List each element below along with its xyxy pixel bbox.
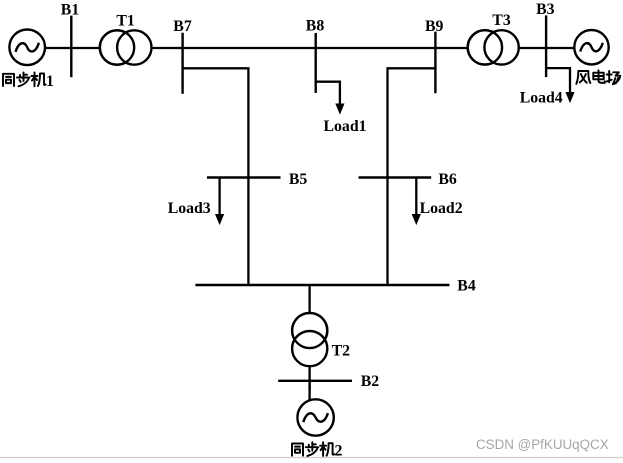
node B4 bus	[195, 284, 449, 286]
node B5 bus bar	[207, 176, 281, 178]
svg-text:B5: B5	[289, 171, 308, 188]
bottom divider line	[0, 457, 623, 459]
svg-text:1: 1	[46, 73, 54, 90]
wire Load3 drop	[218, 178, 220, 216]
svg-text:B7: B7	[173, 18, 192, 35]
transformer T3	[468, 30, 519, 64]
svg-text:T3: T3	[492, 12, 511, 29]
node B6 bus bar	[359, 176, 432, 178]
wire T2 to B2	[308, 365, 310, 390]
generator G1 (同步机1)	[9, 30, 45, 66]
transformer T1	[100, 30, 152, 64]
node B7 bus	[181, 33, 183, 94]
svg-text:Load1: Load1	[324, 118, 367, 135]
arrowhead Load2	[412, 214, 421, 225]
generator wind farm (风电场)	[574, 30, 608, 64]
svg-text:B2: B2	[361, 373, 380, 390]
svg-text:T2: T2	[332, 342, 351, 359]
svg-text:B1: B1	[61, 2, 80, 19]
svg-text:B9: B9	[425, 18, 444, 35]
node B2 bus bar	[278, 380, 352, 382]
wire main horizontal top	[27, 47, 591, 49]
svg-text:B3: B3	[536, 1, 555, 18]
wire B7 branch down to B4	[183, 68, 249, 285]
node B9 bus	[434, 32, 436, 94]
wire B3 load branch	[546, 68, 570, 93]
svg-text:Load2: Load2	[420, 200, 463, 217]
node B1 bus	[70, 16, 72, 78]
wire B2 to generator 2	[308, 381, 310, 401]
wire B8 load branch	[316, 82, 340, 105]
arrowhead Load4	[565, 92, 574, 103]
svg-text:T1: T1	[116, 12, 135, 29]
label 同步机1 (generator 1 name)	[3, 73, 46, 87]
arrowhead Load3	[215, 214, 224, 225]
transformer T2	[292, 313, 327, 366]
generator G2 (同步机2)	[297, 399, 333, 435]
label 同步机2 (generator 2 name)	[292, 442, 334, 456]
svg-text:2: 2	[335, 442, 343, 459]
wire B4 to T2	[308, 285, 310, 314]
svg-text:B8: B8	[306, 18, 325, 35]
wire Load2 drop	[415, 178, 417, 216]
svg-text:Load4: Load4	[520, 89, 563, 106]
wire B9 branch down to B4	[388, 68, 436, 285]
node B3 bus	[545, 15, 547, 77]
arrowhead Load1	[335, 104, 344, 115]
label 风电场 (wind farm name)	[576, 70, 620, 84]
svg-text:B6: B6	[438, 171, 457, 188]
svg-text:B4: B4	[457, 277, 476, 294]
node B8 bus	[315, 33, 317, 93]
svg-text:Load3: Load3	[168, 200, 211, 217]
svg-text:CSDN @PfKUUqQCX: CSDN @PfKUUqQCX	[476, 437, 609, 452]
